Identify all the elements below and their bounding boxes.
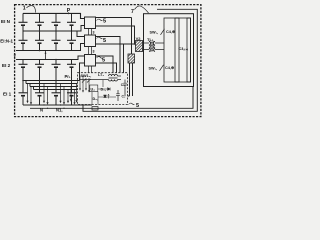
svg-text:1: 1 [23,6,26,12]
junction dots [22,13,135,109]
label 5 unit2 [97,37,103,39]
wire unit2 out A [96,37,121,73]
svg-text:Pr₁: Pr₁ [65,74,71,79]
battery cell row EI N-1 col3 [52,40,61,43]
leader for node P [68,12,70,13]
svg-text:5: 5 [103,38,106,44]
battery cell row EI 2 col4 [67,64,76,67]
wire column 1 [22,13,24,105]
label U2 [90,85,98,92]
inner capacitor bank box [164,18,191,82]
svg-text:SW1₁,: SW1₁, [81,74,92,78]
wire inner row [80,76,122,80]
switch contacts in dashed box [82,79,91,83]
battery cell row EI N col2 [35,22,44,25]
wire rail4 [16,56,85,60]
bank divider B [187,18,191,82]
main unit box 7 [144,14,194,87]
battery cell row EI 2 col1 [19,64,28,67]
coupler lower [128,54,135,63]
detector box 5 unit2 [85,35,96,47]
wires inside dashed box [92,80,116,105]
battery cell row EI 2 col3 [52,64,61,67]
svg-text:3: 3 [93,50,95,54]
battery cell row EI N col1 [19,22,28,25]
wire column 2 [39,13,41,105]
battery cell row EI N-1 col4 [67,40,76,43]
svg-text:N1,: N1, [56,107,63,112]
battery cell row EI 1 col1 [19,93,28,96]
svg-text:U₂: U₂ [91,87,96,91]
wire unit3 out A [96,56,114,73]
svg-text:C₂: C₂ [122,95,126,99]
bank divider A [175,18,179,82]
svg-text:SW₁,: SW₁, [150,30,159,34]
svg-text:5: 5 [102,57,105,63]
wire wrap outer [83,9,197,111]
connector loop on N1 rail [92,107,98,110]
battery cell row EI N col4 [67,22,76,25]
wire coupler drops [128,63,133,96]
svg-text:EI 2: EI 2 [2,63,11,68]
leader for label 1 [27,6,36,13]
wire unit1 out A [96,18,132,55]
wires entering isolator with arrows [79,76,90,93]
transformer LT1 symbol [109,75,118,82]
battery cell row EI 2 col2 [35,64,44,67]
svg-text:D₂,: D₂, [93,97,98,101]
svg-text:N: N [40,108,43,113]
label 5 unit1 [97,19,103,21]
svg-text:EI N: EI N [1,19,11,24]
bus wire 1 [26,81,78,84]
inter-unit stub 2 [89,47,92,55]
svg-text:SW₁,: SW₁, [149,66,158,70]
bus tap arrows [26,84,77,105]
wire unit3 out B [96,63,117,73]
outer dashed enclosure border [15,5,201,117]
bus wire 3 [34,87,78,90]
wire TL1 to switch bank [155,43,164,50]
inter-unit stub 3 [89,66,92,73]
node N1 rail [30,87,193,109]
wire unit2 out B [96,44,136,73]
isolator dashed box 5 detail [78,73,128,105]
capacitor C2 [116,90,120,101]
battery cell row EI 1 col3 [52,93,61,96]
wire column 4 [71,13,73,105]
wire rail3 [16,44,85,51]
svg-text:V2: V2 [136,36,142,41]
battery cell row EI 1 col2 [35,93,44,96]
wire mid junction between break rails [45,51,47,60]
wire rail5 [23,63,85,81]
break arrow continuation mark [14,55,16,60]
node N rail [23,104,92,106]
svg-text:3: 3 [93,31,95,35]
leader for label 7 [135,6,149,13]
wire V2 to TL1 [143,43,150,50]
inter-unit stub 1 [89,29,92,36]
label 5 unit3 [97,57,103,59]
svg-text:LT₁: LT₁ [98,73,104,77]
svg-text:5: 5 [136,103,139,109]
wire top rail P [23,13,85,18]
svg-text:D₁,: D₁, [101,88,106,92]
svg-text:C₁: C₁ [121,83,125,87]
label 5 for dashed box [129,103,135,105]
svg-text:EI:N-1: EI:N-1 [0,39,13,44]
svg-text:EI 1: EI 1 [3,92,12,97]
bus wire 2 [30,84,78,87]
wire rail2 [23,26,85,37]
battery cell row EI N-1 col2 [35,40,44,43]
svg-text:C3,₍₂₎: C3,₍₂₎ [179,47,189,51]
svg-text:7: 7 [131,9,134,15]
svg-text:5: 5 [103,18,106,24]
detector box 5 unit1 [85,17,96,29]
wire unit1 out B [96,26,135,44]
wire column 3 [55,13,57,105]
svg-text:TL₁: TL₁ [147,37,154,42]
detector box 5 unit3 [85,55,96,67]
battery cell row EI N-1 col1 [19,40,28,43]
battery cell row EI 1 col4 [67,93,76,96]
svg-text:C4,⊕: C4,⊕ [166,30,176,34]
capacitor C1 [123,80,127,97]
battery cell row EI N col3 [52,22,61,25]
svg-text:C4,⊕: C4,⊕ [165,66,175,70]
